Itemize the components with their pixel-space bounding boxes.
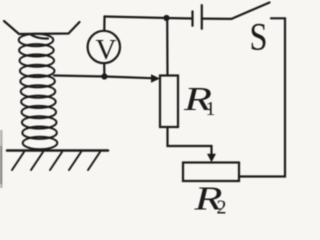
svg-text:1: 1 [206,98,216,120]
svg-text:2: 2 [217,197,227,217]
svg-text:V: V [96,34,117,66]
svg-text:S: S [250,16,268,59]
